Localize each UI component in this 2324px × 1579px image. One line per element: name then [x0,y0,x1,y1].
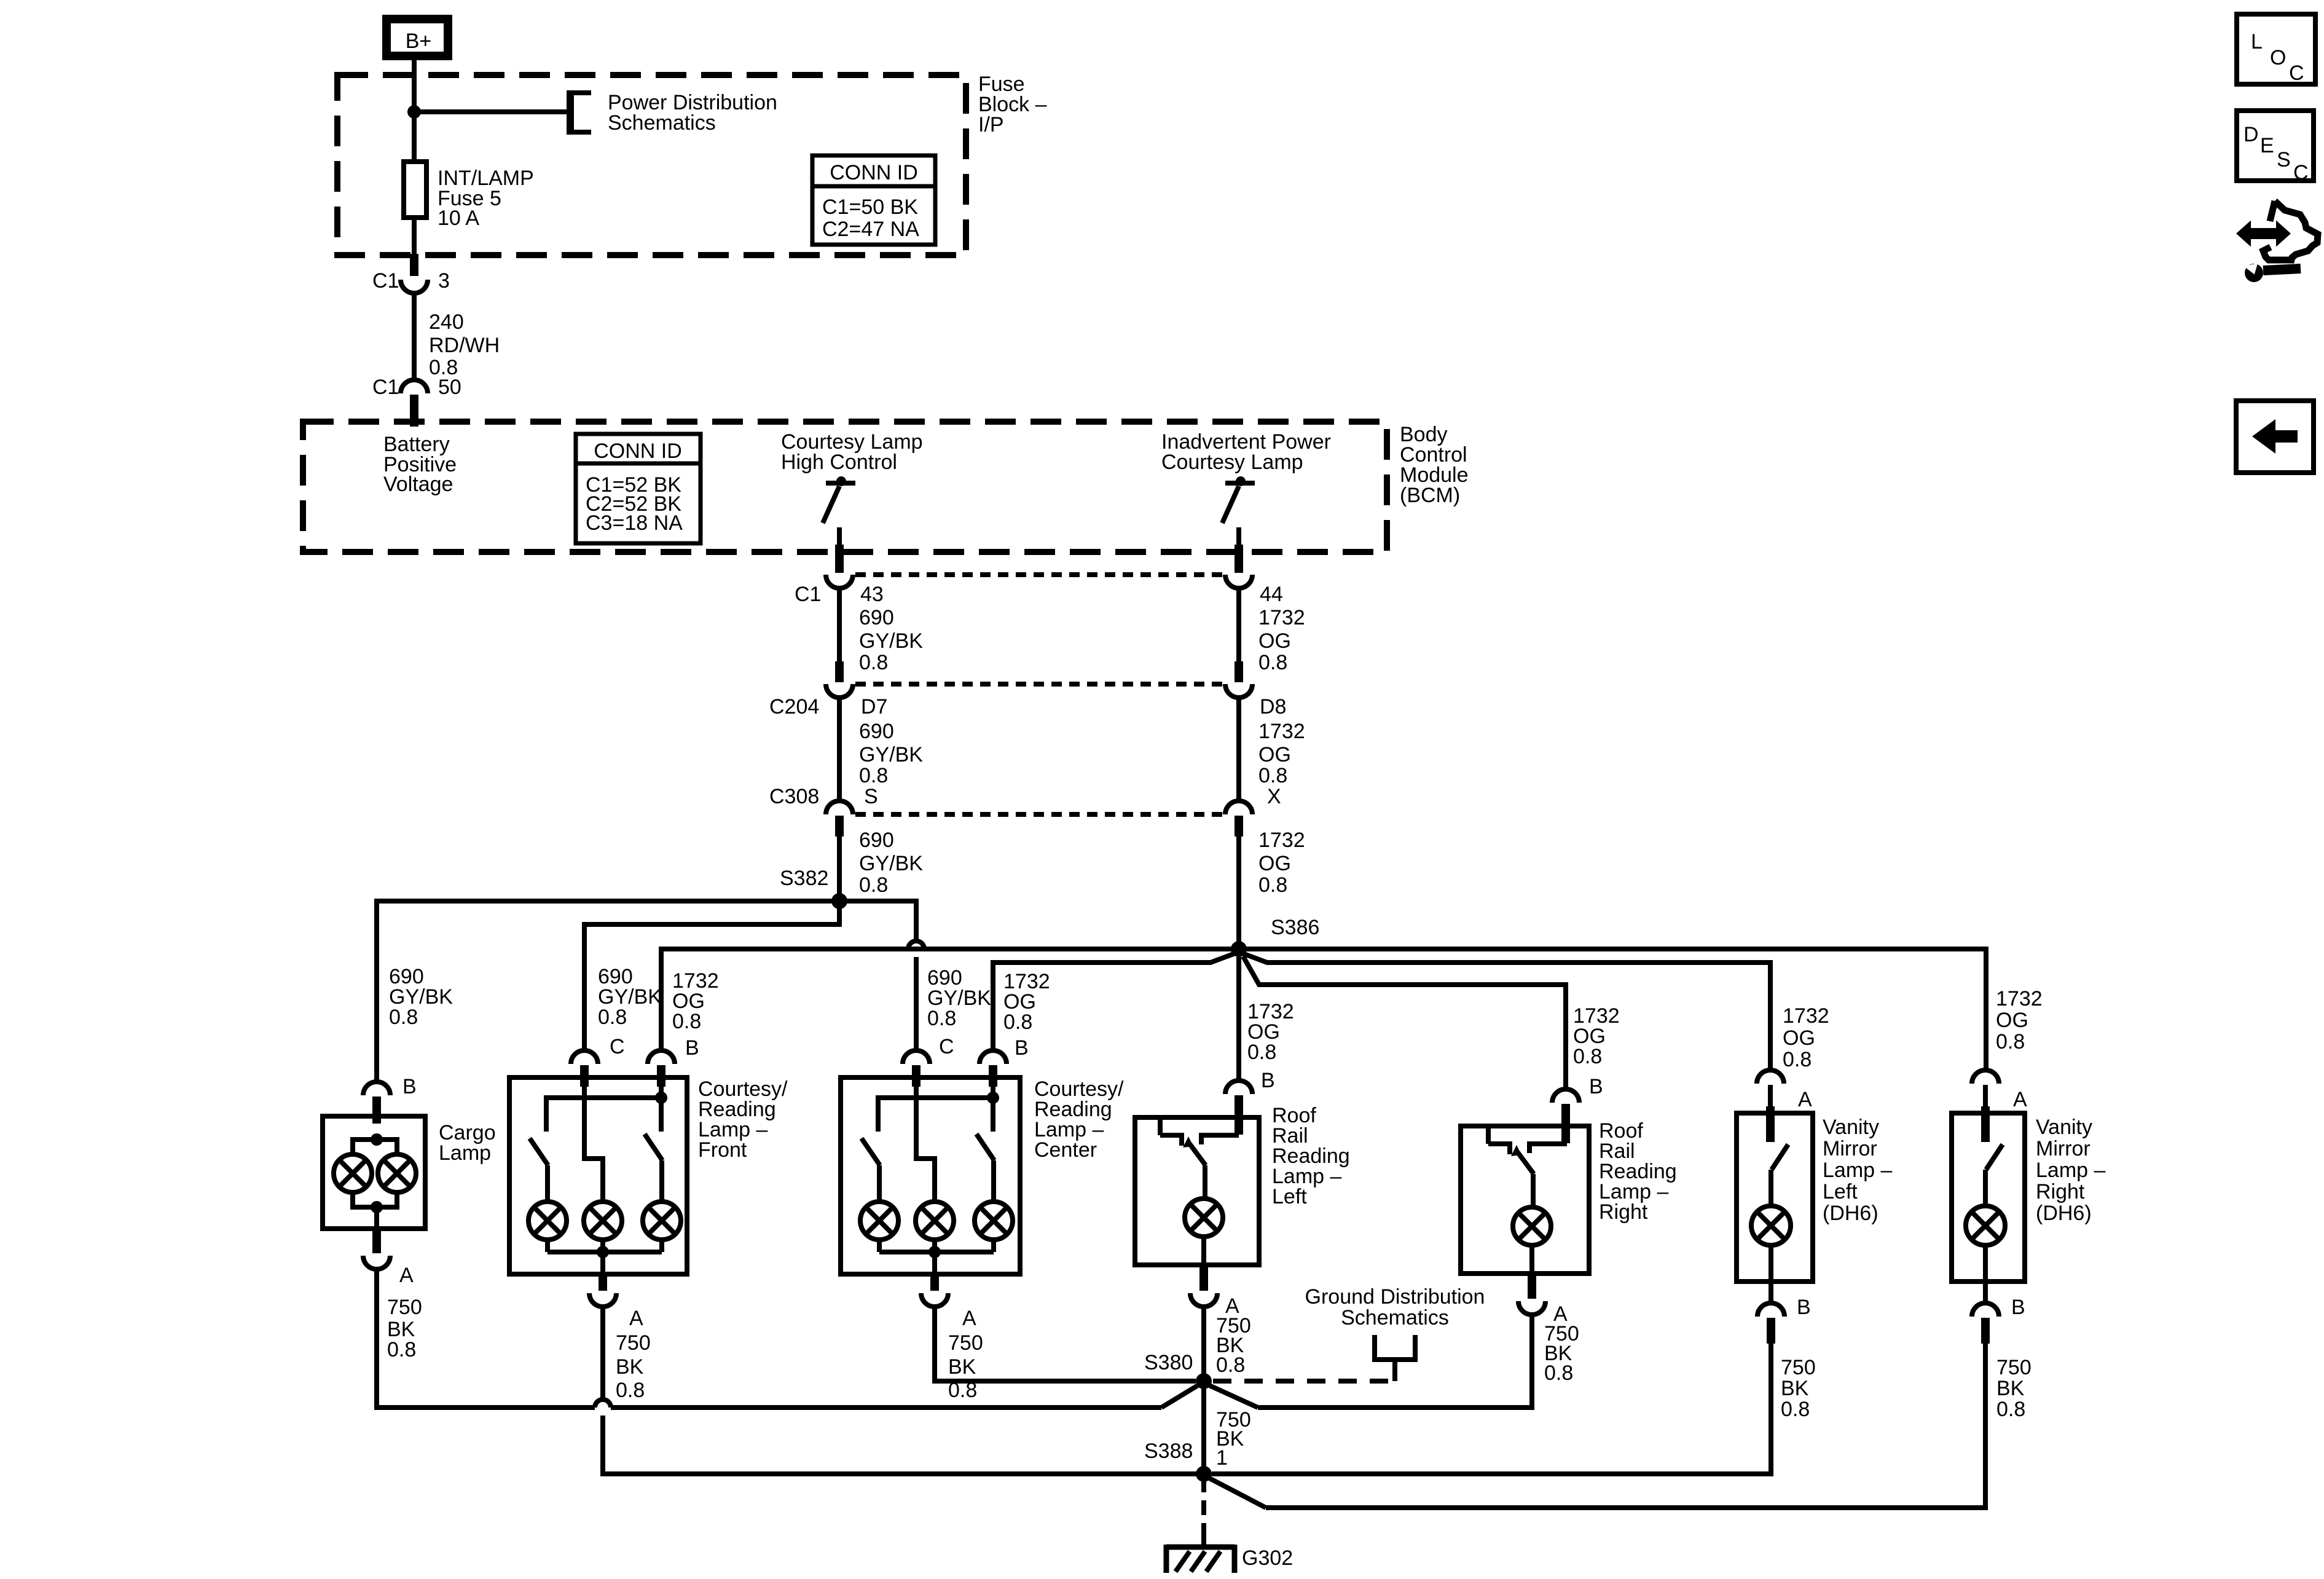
svg-text:1: 1 [1216,1446,1228,1470]
label fuse [438,167,534,230]
connector center lamp pin C [903,1050,930,1064]
lamp cargo 2 [378,1154,416,1192]
svg-text:0.8: 0.8 [1996,1030,2025,1053]
svg-text:X: X [1267,785,1281,808]
svg-text:240: 240 [429,310,464,334]
switch inadvertent power courtesy lamp [1222,476,1255,547]
wire 750 BK 0.8 cargo to S380 [377,1269,595,1408]
lamp center left [860,1202,898,1240]
svg-text:A: A [962,1307,976,1330]
roof left bottom wire [1201,1237,1206,1265]
lamp center middle [916,1202,954,1240]
wire 690 GY/BK 0.8 segment1 [837,588,842,663]
wire 750 BK 0.8 vanity left to S388 [1212,1344,1771,1474]
svg-text:OG: OG [1783,1026,1815,1050]
wire S386 branch to roof rail right B [1243,956,1566,1089]
svg-text:C1=50 BK: C1=50 BK [822,195,918,219]
wire 750 BK 0.8 roof right to S380 [1258,1315,1532,1408]
switch center right [991,1098,995,1132]
svg-text:Left: Left [1823,1180,1858,1203]
svg-text:1732: 1732 [1258,606,1305,629]
svg-text:Right: Right [2036,1180,2085,1203]
in-connector dotted line C1 [855,572,1224,577]
svg-text:B: B [402,1075,417,1098]
wire S386 lower-right branch to vanity left A [1242,953,1770,1070]
svg-text:C2=47 NA: C2=47 NA [822,218,919,241]
label Cargo Lamp [439,1121,496,1165]
icon back arrow box [2236,401,2314,473]
svg-text:B+: B+ [406,30,432,53]
center lamp bottom bus [879,1240,994,1274]
svg-text:Voltage: Voltage [383,473,453,496]
svg-text:E: E [2260,134,2274,157]
ground G302 [1166,1545,1235,1573]
roof rail reading lamp left box [1135,1117,1259,1265]
connector cargo lamp pin B [363,1082,390,1095]
svg-text:C308: C308 [769,785,819,808]
connector C204 pin D8 [1225,684,1252,698]
cargo lamp box [323,1116,425,1229]
svg-text:44: 44 [1260,583,1283,606]
svg-text:750: 750 [948,1331,983,1355]
svg-text:Ground Distribution: Ground Distribution [1305,1285,1485,1309]
svg-text:GY/BK: GY/BK [859,852,923,875]
svg-text:Lamp: Lamp [439,1141,491,1165]
wire diagonal cargo branch into S380 [1161,1385,1199,1408]
svg-text:1732: 1732 [1783,1004,1829,1028]
cargo lamp internal wiring [353,1133,397,1229]
svg-text:S: S [864,785,878,808]
svg-text:B: B [1015,1036,1029,1060]
svg-text:0.8: 0.8 [1258,764,1287,787]
lamp front left [528,1202,567,1240]
connector vanity right pin A [1972,1070,1999,1084]
switch front left [530,1138,548,1165]
connector front lamp pin C [571,1050,598,1064]
wire 690 GY/BK 0.8 segment3 to S382 [837,837,842,901]
label Ground Distribution Schematics [1305,1285,1485,1329]
svg-text:B: B [1797,1296,1811,1319]
svg-text:0.8: 0.8 [1258,651,1287,674]
connector C1 pin 43 [826,575,853,588]
svg-text:BK: BK [1781,1377,1809,1400]
wire S382 down-left to front lamp C [584,901,839,1050]
connector front lamp pin B [648,1050,675,1064]
roof left internal driver symbol [1160,1117,1239,1200]
svg-text:A: A [1798,1088,1812,1111]
svg-text:0.8: 0.8 [1996,1398,2025,1421]
center lamp internal B bus [991,1087,995,1098]
svg-text:GY/BK: GY/BK [859,629,923,653]
wire BCM pin 43 stub [835,545,844,573]
icon vehicle with arrow and wrench [2238,201,2318,282]
courtesy reading lamp center box [841,1077,1020,1274]
svg-text:0.8: 0.8 [387,1338,416,1361]
label Inadvertent Power Courtesy Lamp [1161,430,1331,474]
svg-text:B: B [685,1036,699,1060]
off-page connector bracket Ground Distribution [1372,1335,1418,1381]
svg-text:690: 690 [859,829,894,852]
connector cargo lamp pin A [372,1229,381,1253]
svg-text:RD/WH: RD/WH [429,334,500,357]
lamp vanity right [1966,1206,2005,1245]
splice S382 [831,893,847,909]
label Vanity Mirror Lamp - Left (DH6) [1823,1116,1892,1225]
svg-text:S386: S386 [1271,916,1319,939]
vanity right bottom wire [1983,1245,1988,1303]
svg-text:A: A [629,1307,643,1330]
svg-text:Mirror: Mirror [2036,1137,2090,1160]
label 690 GY/BK 0.8 center C [927,966,991,1030]
svg-text:0.8: 0.8 [389,1006,418,1029]
wire 1732 OG 0.8 segment1 [1236,588,1241,663]
front lamp internal C leg [584,1087,603,1202]
connector C1 pin 44 [1225,575,1252,588]
label Courtesy/Reading Lamp - Center [1034,1077,1124,1162]
BCM dashed box [303,422,1387,552]
svg-text:0.8: 0.8 [859,651,888,674]
connector C308 pin S [826,801,853,814]
svg-text:OG: OG [1258,743,1291,766]
wire 1732 OG 0.8 segment3 to S386 [1236,837,1241,949]
svg-text:1732: 1732 [1258,829,1305,852]
connector roof right pin A [1528,1274,1536,1299]
label Vanity Mirror Lamp - Right (DH6) [2036,1116,2105,1225]
svg-text:OG: OG [1258,852,1291,875]
svg-text:Center: Center [1034,1138,1097,1162]
svg-text:L: L [2251,30,2263,53]
svg-text:OG: OG [1258,629,1291,653]
switch center left [862,1138,880,1165]
svg-text:S380: S380 [1144,1351,1193,1374]
svg-text:0.8: 0.8 [1573,1045,1602,1068]
in-connector dotted line C204 [855,682,1224,687]
fuse block I/P dashed box [337,75,966,255]
svg-text:C: C [2289,61,2304,85]
label 690 GY/BK 0.8 cargo [389,965,453,1029]
svg-text:Schematics: Schematics [608,111,716,135]
svg-text:0.8: 0.8 [672,1010,701,1033]
wire 750 BK 0.8 vanity right to S388 [1266,1344,1985,1508]
svg-text:Courtesy Lamp: Courtesy Lamp [1161,451,1303,474]
lamp roof left [1185,1199,1223,1237]
svg-text:690: 690 [859,720,894,743]
svg-text:Left: Left [1272,1185,1307,1208]
courtesy reading lamp front box [509,1077,687,1274]
label Roof Rail Reading Lamp - Right [1599,1119,1677,1224]
svg-text:O: O [2270,46,2286,69]
wire branch to power distribution reference [414,109,570,114]
wire diagonal vanity right branch into S388 [1209,1478,1266,1508]
wire 750 BK 0.8 front to S388 (passes under cargo hop) [600,1307,605,1400]
svg-text:D7: D7 [861,695,887,719]
svg-text:0.8: 0.8 [1783,1048,1812,1071]
roof right bottom wire [1529,1245,1534,1274]
svg-text:0.8: 0.8 [1258,873,1287,897]
dashed wire S388 to ground [1201,1478,1206,1532]
lamp vanity left [1751,1206,1791,1245]
svg-text:B: B [1261,1069,1275,1092]
wire 1732 OG 0.8 segment2 [1236,698,1241,801]
icon LOC box [2237,14,2315,85]
svg-text:BK: BK [1996,1377,2025,1400]
svg-text:S: S [2277,148,2291,171]
svg-text:GY/BK: GY/BK [859,743,923,766]
svg-text:0.8: 0.8 [616,1379,645,1402]
connector center lamp pin B [979,1050,1007,1064]
svg-text:BK: BK [948,1355,976,1379]
vanity mirror lamp right box [1952,1113,2025,1282]
svg-text:OG: OG [1996,1009,2028,1032]
center lamp internal C leg [916,1087,935,1202]
svg-text:CONN ID: CONN ID [830,161,918,184]
svg-text:0.8: 0.8 [1003,1010,1032,1034]
wire BCM pin 44 stub [1235,545,1243,573]
svg-text:750: 750 [387,1296,422,1319]
connector front lamp pin A [599,1274,607,1291]
front lamp bottom bus [548,1240,662,1274]
svg-text:(DH6): (DH6) [1823,1202,1878,1225]
switch vanity left [1771,1144,1788,1206]
svg-text:0.8: 0.8 [1781,1398,1810,1421]
wire diagonal roof right branch into S380 [1209,1385,1258,1408]
svg-text:(BCM): (BCM) [1400,484,1460,507]
svg-text:D: D [2244,123,2259,146]
svg-text:Mirror: Mirror [1823,1137,1877,1160]
connector roof left pin A [1199,1265,1208,1291]
off-page connector bracket Power Distribution [568,90,591,135]
connector C1 pin 50 [401,380,428,393]
svg-text:(DH6): (DH6) [2036,1202,2092,1225]
svg-text:A: A [399,1264,414,1287]
splice S380 [1196,1373,1212,1389]
label 1732 OG 0.8 vanity left [1783,1004,1829,1071]
roof right internal driver symbol [1488,1126,1567,1209]
svg-text:Right: Right [1599,1200,1648,1224]
wire 750 BK 0.8 roof left to S380 [1201,1307,1206,1381]
svg-text:B: B [1589,1075,1603,1098]
svg-text:690: 690 [859,606,894,629]
svg-text:CONN ID: CONN ID [594,439,682,463]
svg-text:0.8: 0.8 [859,764,888,787]
svg-text:1732: 1732 [1258,720,1305,743]
svg-text:I/P: I/P [978,113,1004,136]
svg-text:B: B [2011,1296,2025,1319]
wire hop over S386 line [908,941,924,949]
svg-text:Lamp –: Lamp – [1823,1159,1892,1182]
svg-text:750: 750 [1996,1356,2032,1379]
svg-text:0.8: 0.8 [1544,1361,1573,1385]
wire S386 down to roof rail left B [1236,957,1241,1081]
fuse F5 INT/LAMP [404,162,426,218]
svg-text:43: 43 [860,583,884,606]
connector C204 pin D7 [826,684,853,698]
svg-text:High Control: High Control [781,451,897,474]
wire 240 RD/WH 0.8 [412,293,417,381]
label 1732 OG 0.8 roof right [1573,1004,1620,1068]
wire B+ to fuse [412,57,417,162]
svg-text:S388: S388 [1144,1439,1193,1463]
connector center lamp pin A [930,1274,939,1291]
label Power Distribution Schematics [608,91,777,135]
svg-text:C1: C1 [795,583,821,606]
wire S382 left to cargo lamp [377,901,839,1082]
svg-text:C: C [610,1035,625,1058]
svg-text:50: 50 [438,376,461,399]
connector C308 pin X [1225,801,1252,814]
label 1732 OG 0.8 roof left [1247,1000,1294,1064]
svg-text:C204: C204 [769,695,819,719]
wire S386 long horizontal (front lamp B to vanity right) [661,949,1986,1070]
wire S382 right to center lamp C (with hop over S386 line) [839,901,916,941]
svg-text:D8: D8 [1260,695,1286,719]
vanity mirror lamp left box [1737,1113,1813,1282]
splice S388 [1196,1466,1212,1482]
icon DESC box [2237,111,2314,184]
wire 690 GY/BK 0.8 segment2 [837,698,842,801]
connector C1 pin 3 [401,280,428,293]
label 1732 OG 0.8 front B [672,969,719,1033]
svg-text:750: 750 [616,1331,651,1355]
svg-text:Front: Front [698,1138,747,1162]
svg-text:C: C [939,1035,954,1058]
CONN ID table fuse block [812,156,935,245]
roof rail reading lamp right box [1461,1126,1589,1274]
switch courtesy lamp high control [823,476,855,547]
svg-text:Lamp –: Lamp – [2036,1159,2105,1182]
label Fuse Block - I/P [978,73,1047,136]
label 690 GY/BK 0.8 front C [598,965,662,1029]
svg-text:S382: S382 [780,867,828,890]
wire 750 BK 1 S380 to S388 [1201,1381,1206,1474]
svg-text:Vanity: Vanity [1823,1116,1879,1139]
in-connector dotted line C308 [855,812,1224,817]
svg-text:C: C [2293,161,2309,184]
wire hop cargo line over front lamp A wire [595,1400,611,1408]
svg-text:0.8: 0.8 [598,1006,627,1029]
label 1732 OG 0.8 vanity right [1996,987,2043,1053]
connector roof left pin B [1225,1081,1252,1094]
front lamp internal B bus [659,1087,664,1098]
svg-text:C1: C1 [372,376,399,399]
svg-text:1732: 1732 [1996,987,2043,1010]
wire into BCM [410,395,418,427]
svg-text:0.8: 0.8 [1247,1041,1276,1064]
CONN ID table BCM [576,434,701,543]
svg-text:C3=18 NA: C3=18 NA [586,511,683,535]
switch vanity right [1985,1144,2003,1206]
label Roof Rail Reading Lamp - Left [1272,1104,1350,1208]
svg-text:A: A [2013,1088,2027,1111]
lamp front right [643,1202,681,1240]
svg-text:750: 750 [1781,1356,1816,1379]
lamp front middle [584,1202,622,1240]
switch front right [659,1098,664,1132]
connector vanity left pin A [1757,1070,1784,1084]
wire fuse to connector C1 pin 3 [412,218,417,256]
lamp cargo 1 [334,1154,372,1192]
node junction on B+ feed [407,105,421,119]
svg-text:0.8: 0.8 [927,1007,956,1030]
svg-text:G302: G302 [1242,1546,1293,1570]
wire 750 BK 0.8 center to S380 [935,1307,1196,1381]
dashed wire S380 to ground distribution reference [1213,1379,1396,1384]
splice S386 [1231,941,1247,957]
svg-text:0.8: 0.8 [948,1379,977,1402]
svg-text:0.8: 0.8 [859,873,888,897]
connector vanity right pin B [1972,1303,1999,1317]
lamp roof right [1513,1207,1551,1245]
svg-text:Vanity: Vanity [2036,1116,2092,1139]
svg-text:BK: BK [616,1355,644,1379]
connector roof right pin B [1552,1089,1579,1103]
vanity left bottom wire [1769,1245,1773,1303]
svg-text:10 A: 10 A [438,207,479,230]
svg-text:0.8: 0.8 [1216,1353,1245,1377]
svg-text:C1: C1 [372,269,399,293]
label 1732 OG 0.8 center B [1003,970,1050,1034]
lamp center right [975,1202,1013,1240]
svg-text:Schematics: Schematics [1341,1306,1449,1329]
connector vanity left pin B [1757,1303,1784,1317]
label Body Control Module (BCM) [1400,423,1469,507]
label Courtesy/Reading Lamp - Front [698,1077,788,1162]
B+ power symbol [387,19,448,56]
label Battery Positive Voltage [383,433,457,496]
label Courtesy Lamp High Control [781,430,923,474]
wire S386 lower-left branch to center lamp B [993,953,1235,1050]
svg-text:3: 3 [438,269,450,293]
